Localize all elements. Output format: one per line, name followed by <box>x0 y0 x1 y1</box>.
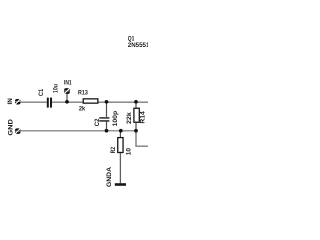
svg-text:2N5551: 2N5551 <box>128 42 148 49</box>
svg-text:100p: 100p <box>112 111 119 127</box>
svg-text:10u: 10u <box>53 84 60 93</box>
svg-text:R13: R13 <box>78 90 88 97</box>
svg-text:22k: 22k <box>126 112 133 124</box>
svg-text:GNDA: GNDA <box>106 167 113 187</box>
svg-text:C1: C1 <box>38 89 45 96</box>
svg-text:IN: IN <box>7 98 14 104</box>
svg-text:10: 10 <box>126 148 133 156</box>
svg-text:2k: 2k <box>79 105 86 112</box>
svg-text:R2: R2 <box>110 147 117 154</box>
svg-text:IN1: IN1 <box>64 80 72 87</box>
svg-text:GND: GND <box>7 119 14 136</box>
svg-text:C2: C2 <box>94 118 101 126</box>
svg-text:R14: R14 <box>140 111 147 124</box>
